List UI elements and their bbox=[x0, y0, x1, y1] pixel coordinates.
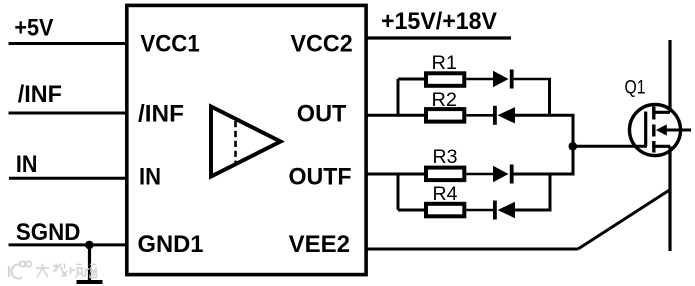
Q1 drain stub bbox=[654, 111, 670, 114]
svg-text:VCC2: VCC2 bbox=[291, 30, 353, 57]
svg-text:OUT: OUT bbox=[297, 101, 347, 128]
wire ground drop bbox=[88, 245, 91, 281]
wire D3 to node bbox=[514, 173, 575, 176]
Q1 body line bbox=[665, 129, 691, 132]
svg-text:/INF: /INF bbox=[18, 81, 62, 108]
resistor R4 bbox=[426, 204, 464, 217]
svg-text:IN: IN bbox=[16, 151, 38, 178]
svg-text:/INF: /INF bbox=[138, 101, 184, 128]
resistor R2 bbox=[426, 109, 464, 122]
Q1 channel segment bottom bbox=[652, 141, 655, 153]
wire branch up to R1 bbox=[397, 79, 400, 115]
diode D2 bbox=[493, 106, 497, 125]
svg-text:+5V: +5V bbox=[14, 15, 53, 42]
Q1 channel segment middle bbox=[652, 125, 655, 137]
wire R1 to D1 bbox=[466, 78, 493, 81]
svg-text:GND1: GND1 bbox=[138, 231, 204, 258]
wire source bbox=[668, 146, 671, 251]
wire D2 to node bbox=[515, 114, 575, 117]
wire VCC2 supply bbox=[366, 36, 511, 39]
wire rail R3-R4 bbox=[549, 174, 552, 210]
wire OUT row bbox=[366, 114, 425, 117]
resistor R1 bbox=[426, 73, 464, 86]
wire D4 to rail bbox=[515, 209, 552, 212]
wire R4 row left bbox=[398, 209, 425, 212]
resistor R3 bbox=[426, 168, 464, 181]
svg-text:Q1: Q1 bbox=[625, 78, 646, 99]
wire D1 to rail bbox=[514, 78, 551, 81]
buffer amplifier triangle bbox=[211, 107, 281, 177]
svg-text:+15V/+18V: +15V/+18V bbox=[381, 8, 497, 35]
watermark text bbox=[36, 264, 98, 278]
junction gate node dot bbox=[569, 142, 578, 151]
wire R1 row left bbox=[398, 78, 425, 81]
wire VEE2 diagonal to source bbox=[578, 190, 670, 249]
wire IN input bbox=[9, 177, 126, 180]
svg-text:VCC1: VCC1 bbox=[140, 30, 199, 57]
wire SGND input bbox=[9, 243, 127, 246]
wire rail R1-R2 bbox=[548, 79, 551, 115]
diode D3 bbox=[493, 166, 509, 182]
wire R4 to D4 bbox=[466, 209, 493, 212]
dashed line inside buffer bbox=[234, 121, 237, 163]
Q1 gate bar bbox=[644, 112, 647, 147]
svg-text:R1: R1 bbox=[432, 53, 458, 74]
wire +5V input bbox=[9, 42, 127, 45]
diode D1 bbox=[493, 71, 509, 87]
Q1 channel segment top bbox=[652, 107, 655, 120]
wire VEE2 bbox=[366, 248, 578, 251]
ground bbox=[77, 280, 103, 284]
wire R2 to D2 bbox=[466, 114, 493, 117]
diode D4 bbox=[493, 201, 497, 220]
svg-text:R3: R3 bbox=[433, 147, 458, 168]
junction SGND dot bbox=[85, 241, 94, 250]
svg-text:OUTF: OUTF bbox=[289, 164, 352, 191]
svg-text:SGND: SGND bbox=[16, 219, 81, 246]
wire gate bbox=[573, 145, 647, 148]
transistor Q1 MOSFET circle bbox=[630, 105, 681, 156]
svg-text:R2: R2 bbox=[432, 90, 458, 111]
svg-text:IN: IN bbox=[139, 164, 161, 191]
op-amp U1 IC body rectangle bbox=[127, 5, 366, 274]
watermark logo bbox=[9, 261, 31, 278]
Q1 body arrow bbox=[656, 124, 667, 135]
wire drain bbox=[668, 40, 671, 112]
wire R3 to D3 bbox=[466, 173, 493, 176]
wire /INF input bbox=[9, 112, 127, 115]
wire vertical to gate node bbox=[572, 115, 575, 174]
wire branch down to R4 bbox=[397, 174, 400, 210]
wire OUTF row bbox=[366, 173, 425, 176]
svg-text:R4: R4 bbox=[433, 184, 458, 205]
svg-text:VEE2: VEE2 bbox=[289, 231, 350, 258]
Q1 source stub bbox=[654, 145, 670, 148]
